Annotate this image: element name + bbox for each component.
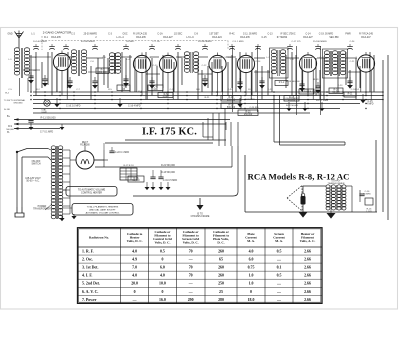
svg-text:RCA-235: RCA-235 [136, 36, 146, 39]
svg-text:L-5 L-6: L-5 L-6 [186, 37, 194, 39]
svg-text:—: — [188, 290, 193, 294]
svg-text:....: .... [277, 298, 281, 302]
svg-text:2.66: 2.66 [304, 250, 311, 254]
svg-text:290: 290 [188, 298, 194, 302]
svg-text:4 MFD: 4 MFD [367, 104, 374, 106]
svg-text:C-9 .1 MFD: C-9 .1 MFD [232, 41, 244, 43]
svg-text:250,000: 250,000 [244, 114, 253, 116]
svg-text:Radiotron No.: Radiotron No. [89, 235, 109, 239]
svg-text:R-1 RCA-235: R-1 RCA-235 [133, 33, 148, 36]
svg-text:25: 25 [219, 290, 223, 294]
svg-text:C-22 0.1 MFD: C-22 0.1 MFD [115, 152, 130, 154]
svg-text:Volts, D. C.: Volts, D. C. [183, 241, 199, 245]
svg-text:C-23: C-23 [338, 85, 344, 87]
svg-text:40-280 MMFD: 40-280 MMFD [81, 41, 95, 43]
svg-text:.25-30 MMFD: .25-30 MMFD [83, 34, 97, 36]
svg-text:—: — [188, 282, 193, 286]
svg-text:20.0: 20.0 [131, 282, 138, 286]
svg-text:500,000: 500,000 [227, 99, 236, 101]
svg-text:RCA-227: RCA-227 [303, 36, 313, 39]
svg-text:R-11 1 MEG: R-11 1 MEG [316, 100, 328, 102]
svg-text:2.66: 2.66 [304, 282, 311, 286]
svg-text:400,000: 400,000 [98, 72, 107, 74]
svg-text:4,000: 4,000 [163, 96, 169, 98]
svg-text:B+180: B+180 [4, 109, 11, 111]
svg-text:C-24: C-24 [350, 41, 356, 43]
svg-text:50,000: 50,000 [132, 180, 140, 182]
svg-text:TRANSFORMER: TRANSFORMER [33, 208, 51, 211]
svg-text:RCA-280: RCA-280 [80, 144, 90, 147]
svg-text:500,000: 500,000 [227, 107, 236, 109]
svg-text:7. Power: 7. Power [82, 298, 97, 302]
svg-text:C-21: C-21 [350, 61, 356, 63]
svg-text:2.66: 2.66 [304, 258, 311, 262]
svg-text:6.0: 6.0 [160, 266, 165, 270]
svg-text:R-21 500,000: R-21 500,000 [161, 165, 176, 167]
svg-text:250: 250 [218, 282, 224, 286]
svg-text:0: 0 [134, 290, 136, 294]
svg-text:RCA-247: RCA-247 [361, 36, 371, 39]
svg-text:6.0: 6.0 [249, 258, 254, 262]
svg-text:R-7 RCA-245: R-7 RCA-245 [359, 33, 374, 36]
svg-text:RCA-224: RCA-224 [212, 36, 222, 39]
svg-text:C-11: C-11 [178, 57, 183, 59]
svg-text:500,000: 500,000 [6, 129, 14, 131]
svg-text:RCA-235: RCA-235 [51, 36, 61, 39]
svg-text:—: — [188, 258, 193, 262]
svg-text:C-22: C-22 [228, 89, 234, 91]
svg-text:0.5: 0.5 [277, 250, 282, 254]
svg-text:C-10: C-10 [153, 65, 159, 67]
svg-text:R-19: R-19 [314, 79, 320, 81]
svg-text:C-19: C-19 [320, 57, 326, 59]
svg-text:0.1: 0.1 [277, 266, 282, 270]
svg-text:1. R. F.: 1. R. F. [82, 250, 94, 254]
svg-text:PWR: PWR [345, 34, 351, 36]
svg-text:AND DIAL LAMP, EXCEPT: AND DIAL LAMP, EXCEPT [89, 209, 116, 212]
svg-text:R-4C: R-4C [229, 34, 235, 36]
svg-text:C-19 .05 MFD: C-19 .05 MFD [319, 34, 334, 36]
svg-text:C-12: C-12 [202, 65, 208, 67]
svg-text:CHASSIS FRAME: CHASSIS FRAME [191, 215, 210, 218]
svg-text:R-13 500,000: R-13 500,000 [161, 172, 176, 174]
svg-text:10.0: 10.0 [159, 282, 166, 286]
svg-text:50,000: 50,000 [332, 92, 340, 94]
svg-text:C-25 350: C-25 350 [250, 107, 260, 109]
svg-text:Volts, D. C.: Volts, D. C. [154, 241, 170, 245]
svg-text:R-12: R-12 [310, 91, 316, 93]
svg-text:0: 0 [161, 290, 163, 294]
svg-text:OSC: OSC [123, 34, 128, 36]
svg-text:TO ALL FILAMENTS, HEATERS: TO ALL FILAMENTS, HEATERS [87, 206, 119, 209]
svg-text:R-17 R-18: R-17 R-18 [123, 165, 134, 167]
svg-text:10-140 MMFD: 10-140 MMFD [33, 41, 47, 43]
svg-text:TO SW: TO SW [4, 100, 11, 102]
svg-text:65: 65 [219, 258, 223, 262]
svg-text:R-10 500,000: R-10 500,000 [286, 81, 300, 83]
svg-text:IF SEC 175KC: IF SEC 175KC [280, 34, 295, 36]
svg-text:16.0: 16.0 [159, 298, 166, 302]
svg-text:4.0: 4.0 [249, 250, 254, 254]
svg-text:4.0: 4.0 [132, 250, 137, 254]
svg-text:C-11 .05 MFD: C-11 .05 MFD [243, 34, 258, 36]
svg-text:C-16 4 MFD: C-16 4 MFD [128, 106, 141, 108]
svg-text:TRANSFORMER: TRANSFORMER [328, 182, 345, 185]
svg-text:6. A. V. C.: 6. A. V. C. [82, 290, 98, 294]
svg-text:0.5: 0.5 [277, 274, 282, 278]
svg-text:C-31 0.5 MFD: C-31 0.5 MFD [163, 180, 178, 182]
svg-text:0: 0 [250, 290, 252, 294]
svg-text:0.75: 0.75 [248, 266, 255, 270]
svg-text:Volts, D. C.: Volts, D. C. [127, 239, 143, 243]
svg-text:5. 2nd Det.: 5. 2nd Det. [82, 282, 100, 286]
svg-text:260: 260 [218, 274, 224, 278]
svg-text:280: 280 [218, 298, 224, 302]
svg-text:260: 260 [218, 250, 224, 254]
svg-text:Volts, A. C.: Volts, A. C. [300, 239, 316, 243]
svg-text:SEC 880: SEC 880 [329, 37, 339, 39]
svg-text:1.0: 1.0 [249, 282, 254, 286]
svg-text:4.0: 4.0 [160, 274, 165, 278]
svg-text:C-15: C-15 [262, 37, 268, 39]
svg-text:R-11: R-11 [348, 93, 354, 95]
svg-text:C-7 .05: C-7 .05 [152, 41, 160, 43]
svg-text:0.5: 0.5 [160, 250, 165, 254]
svg-text:C-22: C-22 [268, 89, 274, 91]
svg-text:LAMP: LAMP [41, 111, 47, 114]
svg-text:2.66: 2.66 [304, 298, 311, 302]
svg-text:D. C.: D. C. [217, 241, 224, 245]
svg-text:1ST DET: 1ST DET [209, 34, 219, 36]
svg-text:260: 260 [218, 266, 224, 270]
svg-text:C-1A: C-1A [157, 33, 163, 36]
svg-text:25-180 MMFD: 25-180 MMFD [313, 41, 327, 43]
svg-text:.05 MFD: .05 MFD [126, 41, 135, 43]
svg-text:18.0: 18.0 [248, 298, 255, 302]
svg-text:CONTROL HEATER: CONTROL HEATER [81, 192, 102, 195]
svg-text:C-17: C-17 [170, 89, 176, 91]
svg-text:70: 70 [189, 250, 193, 254]
svg-text:R-21: R-21 [205, 97, 211, 99]
svg-text:2.66: 2.66 [304, 266, 311, 270]
svg-text:2.66: 2.66 [304, 290, 311, 294]
svg-text:C-14: C-14 [306, 34, 312, 36]
svg-text:1.0: 1.0 [249, 274, 254, 278]
svg-text:R 1-2: R 1-2 [279, 82, 285, 84]
svg-text:AUTOMATIC VOLUME CONTROL: AUTOMATIC VOLUME CONTROL [86, 212, 121, 215]
svg-text:C-24 0.1: C-24 0.1 [351, 89, 360, 91]
svg-text:GND: GND [7, 34, 12, 36]
svg-text:50-60 ~ A.C.: 50-60 ~ A.C. [26, 180, 40, 183]
svg-text:7.0: 7.0 [132, 266, 137, 270]
svg-text:70: 70 [189, 274, 193, 278]
svg-text:IF TRANS: IF TRANS [277, 36, 288, 39]
svg-text:M. A.: M. A. [247, 239, 255, 243]
svg-text:70: 70 [189, 266, 193, 270]
svg-text:54-280 MMFD: 54-280 MMFD [198, 41, 212, 43]
svg-text:2-GANG CAPACITOR: 2-GANG CAPACITOR [43, 31, 71, 35]
svg-text:R-11 500,000: R-11 500,000 [41, 116, 57, 119]
svg-text:R-20 MFD: R-20 MFD [245, 99, 256, 101]
svg-text:RCA-235: RCA-235 [240, 36, 250, 39]
svg-text:C-7 0.1 MFD: C-7 0.1 MFD [40, 132, 53, 134]
svg-text:4.0: 4.0 [132, 274, 137, 278]
svg-text:....: .... [277, 258, 281, 262]
svg-text:SWITCH: SWITCH [31, 164, 40, 166]
svg-text:I.F. 175 KC.: I.F. 175 KC. [142, 127, 197, 138]
svg-text:C-13: C-13 [228, 57, 234, 59]
svg-text:....: .... [277, 290, 281, 294]
svg-text:C-16 2.0 MFD: C-16 2.0 MFD [66, 106, 81, 108]
svg-text:C-14: C-14 [256, 61, 262, 63]
svg-text:C-17 175: C-17 175 [292, 41, 302, 43]
svg-text:GROUND: GROUND [13, 102, 23, 104]
svg-text:RCA-227: RCA-227 [163, 36, 173, 39]
svg-text:3. 1st Det.: 3. 1st Det. [82, 266, 98, 270]
svg-text:1/2 SEC: 1/2 SEC [174, 34, 183, 36]
svg-text:R-12 50,000: R-12 50,000 [286, 105, 299, 107]
svg-text:C-11 1.5: C-11 1.5 [316, 94, 325, 96]
svg-text:—: — [132, 298, 137, 302]
svg-text:M. A.: M. A. [275, 239, 283, 243]
svg-text:4.9: 4.9 [132, 258, 137, 262]
svg-text:TO AUTOMATIC VOLUME: TO AUTOMATIC VOLUME [78, 189, 106, 192]
svg-text:L-3 L-4: L-3 L-4 [116, 37, 124, 39]
svg-text:2. Osc.: 2. Osc. [82, 258, 93, 262]
svg-text:10 MFD: 10 MFD [363, 193, 371, 195]
svg-text:4. I. F.: 4. I. F. [82, 274, 92, 278]
svg-text:B-: B- [7, 131, 10, 134]
svg-text:C-13: C-13 [268, 34, 274, 36]
svg-text:4-80: 4-80 [153, 89, 158, 91]
svg-text:....: .... [277, 282, 281, 286]
svg-text:C-26 0.015MFD: C-26 0.015MFD [283, 98, 299, 100]
svg-text:2.66: 2.66 [304, 274, 311, 278]
svg-text:0: 0 [161, 258, 163, 262]
